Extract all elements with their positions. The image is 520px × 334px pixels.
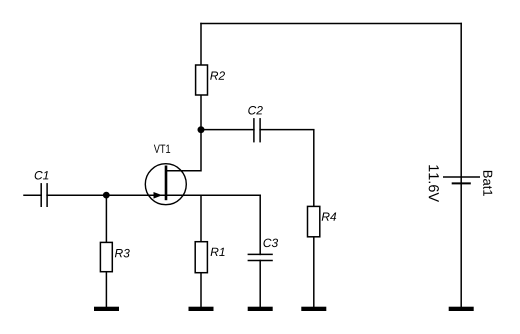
- ground (battery): [449, 307, 474, 311]
- capacitor C1: [41, 183, 47, 207]
- wire collector riser: [166, 130, 201, 171]
- ground (R1): [189, 307, 214, 311]
- resistor R1: [195, 242, 207, 273]
- wire R3 bottom lead: [105, 272, 107, 307]
- node collector junction: [198, 126, 205, 133]
- wire top rail: [201, 23, 461, 25]
- wire C3 bottom lead: [259, 261, 261, 307]
- wire input stub: [24, 194, 41, 196]
- label R3: [115, 249, 130, 258]
- label R1: [211, 248, 225, 256]
- ground (R3): [94, 307, 119, 311]
- label C2: [248, 106, 263, 115]
- wire R3 top lead: [105, 195, 107, 242]
- capacitor C3: [248, 254, 273, 260]
- wire collector node to C2: [201, 129, 254, 131]
- resistor R2: [196, 65, 208, 95]
- label R2: [210, 71, 225, 79]
- ground (C3): [248, 307, 273, 311]
- label C3: [263, 239, 278, 248]
- transistor VT1: [145, 164, 186, 205]
- resistor R3: [100, 242, 112, 271]
- label 11.6V: [429, 165, 439, 202]
- label Bat1: [483, 171, 492, 196]
- wire battery lead: [460, 24, 462, 307]
- wire C2 to R4 corner: [260, 130, 314, 207]
- wire R2 bottom lead: [200, 95, 202, 130]
- node base junction: [103, 192, 110, 199]
- wire C3 top lead: [259, 195, 261, 254]
- label C1: [35, 171, 49, 180]
- ground (R4): [301, 307, 326, 311]
- wire R1 bottom lead: [200, 273, 202, 307]
- wire base line (C1 to C3 corner): [47, 194, 260, 196]
- label R4: [322, 213, 337, 221]
- battery Bat1: [443, 177, 480, 183]
- resistor R4: [308, 206, 320, 236]
- label VT1: [154, 145, 170, 153]
- wire R4 bottom lead: [313, 237, 315, 307]
- wire R2 top lead: [200, 24, 202, 66]
- capacitor C2: [254, 118, 260, 142]
- wire R1 top lead: [200, 195, 202, 241]
